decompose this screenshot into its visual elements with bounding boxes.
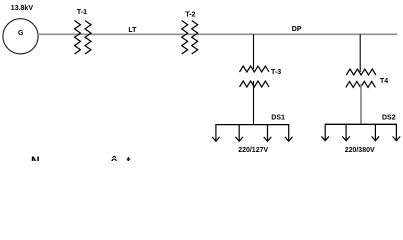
DS2 feeder arrow 1	[321, 124, 329, 141]
svg-text:T4: T4	[380, 78, 388, 85]
DS1 feeder arrow 1	[212, 124, 220, 141]
svg-text:DS1: DS1	[271, 115, 285, 122]
svg-text:ê: ê	[111, 154, 118, 161]
wire DP to T4 primary	[359, 34, 361, 72]
wire DP (T-2 to right edge)	[197, 33, 397, 35]
transformer T4 primary winding	[346, 69, 376, 75]
svg-text:220/127V: 220/127V	[238, 147, 268, 154]
DS2 feeder arrow 4	[393, 124, 401, 141]
DS1 feeder arrow 4	[285, 124, 293, 141]
svg-text:G: G	[18, 30, 24, 37]
transformer T-2 winding 1	[182, 21, 188, 55]
transformer T-2 winding 2	[192, 21, 198, 55]
svg-text:DP: DP	[292, 26, 302, 33]
wire T4 secondary to bus DS2	[360, 84, 362, 124]
svg-text:T-1: T-1	[77, 9, 87, 16]
DS1 feeder arrow 3	[264, 124, 272, 141]
bus DS1	[216, 124, 289, 126]
generator G	[3, 19, 38, 54]
transformer T-1 winding 2	[85, 21, 91, 55]
transformer T-3 primary winding	[240, 66, 270, 72]
transformer T-3 secondary winding	[240, 81, 270, 87]
wire LT (generator to T-2)	[38, 33, 197, 35]
DS2 feeder arrow 2	[342, 124, 350, 141]
transformer T-1 winding 1	[75, 21, 81, 55]
svg-text:N: N	[31, 154, 40, 161]
svg-text:T-2: T-2	[185, 12, 195, 19]
wire DP to T-3 primary	[253, 34, 255, 69]
svg-text:t: t	[127, 154, 131, 161]
DS2 feeder arrow 3	[372, 124, 380, 141]
svg-text:DS2: DS2	[382, 115, 396, 122]
DS1 feeder arrow 2	[235, 124, 243, 141]
transformer T4 secondary winding	[346, 81, 376, 87]
svg-text:220/380V: 220/380V	[345, 147, 375, 154]
svg-text:T-3: T-3	[271, 69, 281, 76]
bus DS2	[325, 123, 396, 125]
wire T-3 secondary to bus DS1	[253, 81, 255, 125]
svg-text:LT: LT	[128, 27, 137, 34]
svg-text:13.8kV: 13.8kV	[11, 5, 34, 12]
